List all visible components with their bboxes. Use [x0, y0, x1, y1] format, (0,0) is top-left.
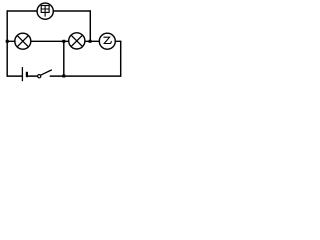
meter U2 (yi): [99, 33, 115, 49]
node junction top-right: [89, 40, 92, 43]
lamp L1: [15, 33, 31, 49]
wire middle row segment 1: [7, 40, 15, 42]
node junction left rail: [6, 40, 9, 43]
wire bottom segment 2: [28, 75, 37, 77]
wire middle vertical: [63, 41, 65, 76]
wire bottom segment 3: [50, 75, 120, 77]
wire right vertical: [120, 41, 122, 76]
wire top-right vertical: [89, 11, 91, 41]
switch S1: [38, 70, 52, 78]
wire top-right horizontal: [53, 10, 90, 12]
wire bottom segment 1: [7, 75, 22, 77]
wire middle row segment 2: [31, 40, 69, 42]
node junction bottom: [62, 75, 65, 78]
battery BT1: [22, 68, 27, 81]
wire middle row segment 3: [85, 40, 99, 42]
meter U1 (jia): [37, 3, 53, 19]
wire left vertical rail: [6, 11, 8, 76]
wire middle row segment 4: [115, 40, 120, 42]
wire top-left horizontal: [7, 10, 37, 12]
lamp L2: [69, 33, 85, 49]
node junction middle: [62, 40, 65, 43]
